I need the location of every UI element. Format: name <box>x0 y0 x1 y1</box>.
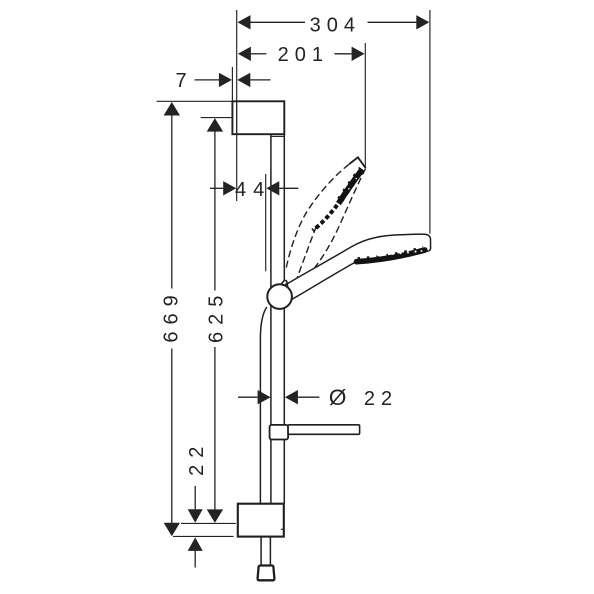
svg-text:Ø 22: Ø 22 <box>329 385 398 410</box>
svg-text:201: 201 <box>278 44 329 66</box>
svg-text:625: 625 <box>206 289 228 343</box>
svg-text:44: 44 <box>235 179 271 201</box>
svg-text:669: 669 <box>160 288 182 342</box>
svg-text:304: 304 <box>310 15 361 37</box>
svg-text:22: 22 <box>186 440 208 476</box>
svg-text:7: 7 <box>175 70 192 92</box>
